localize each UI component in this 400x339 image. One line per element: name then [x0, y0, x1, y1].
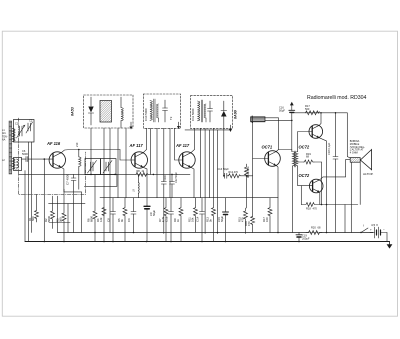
wire emitter AF117b down [191, 167, 194, 197]
transistor OC72 lower [309, 179, 323, 193]
capacitor C18 [335, 113, 337, 157]
ferrite antenna rod [9, 121, 12, 174]
wire secondary bottom to OC72b base [298, 166, 313, 186]
driver transformer T3 [293, 151, 298, 167]
svg-text:210: 210 [75, 142, 79, 147]
svg-text:C9: C9 [127, 218, 131, 222]
svg-text:−: − [383, 228, 385, 232]
bias line with resistor R18 [301, 203, 358, 207]
wire base AF117a [120, 150, 135, 161]
svg-text:R12 470: R12 470 [229, 171, 239, 174]
svg-text:R18: R18 [306, 207, 311, 211]
supply rail R17 line [292, 112, 348, 114]
svg-text:R20: R20 [311, 226, 316, 230]
IF can 2 dashed box [143, 94, 180, 128]
resistor R20 [306, 231, 322, 235]
svg-text:AF 117: AF 117 [129, 143, 144, 148]
wire driver primary bottom down [292, 166, 294, 233]
loudspeaker cone [360, 150, 371, 170]
volume potentiometer R13 [251, 116, 265, 123]
svg-text:ALTOP.: ALTOP. [363, 172, 373, 176]
thermistor box R6 [100, 101, 112, 123]
transistor OC72 upper [309, 125, 323, 139]
capacitor IF2 [164, 100, 166, 108]
transistor AF117 first [131, 152, 147, 168]
wire speaker return [359, 162, 361, 204]
svg-text:68: 68 [318, 226, 321, 230]
AGC line [18, 173, 190, 175]
coil L3 [17, 159, 19, 168]
junction dots on bus [103, 241, 105, 243]
svg-text:R8: R8 [137, 170, 141, 173]
wire collector AF117a up to can2 [143, 128, 146, 152]
wire [208, 130, 210, 198]
resistor R5 vertical [123, 198, 127, 241]
svg-text:C11 5000: C11 5000 [191, 108, 195, 121]
electrolytic C9b [144, 206, 156, 242]
svg-text:T2: T2 [169, 116, 173, 120]
wire [213, 128, 215, 197]
bottom bus lower [25, 241, 390, 243]
wire collector OC72b to output transformer [320, 160, 350, 180]
wire base AF117b [175, 128, 183, 160]
IF can 3 dashed box [190, 96, 232, 129]
wire emitter OC71 down [276, 166, 278, 233]
svg-text:5000: 5000 [164, 174, 167, 180]
svg-text:C12 50µF: C12 50µF [175, 171, 178, 183]
oscillator coil L4 [79, 157, 81, 167]
capacitor C16 electrolytic [289, 102, 295, 152]
wire [117, 128, 119, 198]
svg-text:C8: C8 [107, 218, 111, 222]
resistor R8 in AGC line [136, 172, 148, 176]
svg-text:C18 0,1µF: C18 0,1µF [327, 142, 331, 155]
mid horizontal line left [49, 203, 85, 205]
wire pot to collector node [265, 118, 279, 150]
choke L9 vertical [138, 182, 141, 193]
wire base bias [300, 186, 302, 205]
wire [200, 128, 202, 197]
coil IF3 primary [198, 101, 200, 121]
wire IF can1 secondary down [103, 128, 105, 242]
wire collector OC72a to top rail [319, 113, 321, 125]
resistor R17 [306, 111, 320, 115]
svg-text:+: + [370, 228, 372, 232]
svg-text:4,5 V: 4,5 V [371, 223, 378, 227]
svg-text:L3: L3 [15, 167, 18, 171]
wire collector OC71 to driver transformer [276, 150, 292, 152]
wire [31, 142, 33, 233]
output transformer feed wire [347, 113, 350, 158]
transistor AF117 second [179, 152, 195, 168]
svg-text:6800: 6800 [90, 216, 94, 222]
capacitor IF3 [209, 101, 211, 109]
svg-text:L9: L9 [133, 189, 136, 192]
svg-text:C12: C12 [165, 216, 169, 222]
svg-text:AF 116: AF 116 [46, 141, 61, 146]
resistor R1 vertical [35, 195, 39, 223]
battery 4.5V [370, 227, 387, 242]
junction node [44, 158, 46, 160]
wire pot left down to OC71 base [253, 122, 269, 159]
transistor AF116 [49, 152, 65, 168]
resistor R18 vertical [268, 198, 272, 233]
wire base bias down [252, 159, 254, 217]
svg-text:50µF: 50µF [279, 109, 285, 113]
svg-text:C7 4000: C7 4000 [66, 174, 70, 185]
wire down from base node [43, 159, 45, 241]
svg-text:100: 100 [265, 217, 269, 222]
IF can 1 dashed box [84, 95, 133, 128]
svg-text:OC71: OC71 [262, 145, 273, 150]
wire [125, 128, 127, 198]
transistor OC71 [265, 151, 281, 167]
capacitor C9 [133, 198, 135, 212]
capacitor C12b from AGC line [171, 174, 173, 181]
wire can3 bottom [185, 129, 231, 131]
wire diode to AGC line [90, 128, 92, 174]
resistor R4 vertical [102, 208, 106, 216]
svg-text:4k: 4k [142, 170, 145, 173]
svg-text:5000: 5000 [22, 152, 28, 156]
wire collector AF117b up to can3 [191, 128, 195, 152]
capacitor C14 [201, 198, 203, 212]
svg-text:0A90: 0A90 [234, 109, 238, 119]
svg-text:500: 500 [305, 107, 310, 111]
diode OA53 [88, 97, 93, 125]
capacitor C6 [22, 158, 27, 160]
wire [28, 142, 30, 242]
resistor R12 horizontal [229, 174, 253, 178]
trimmer box A [85, 159, 101, 175]
resistor R15 vertical [244, 208, 248, 223]
wire base AF116 [28, 158, 53, 160]
wire [150, 128, 152, 174]
resistor R7 vertical [164, 198, 168, 241]
wire [24, 171, 26, 242]
svg-text:470: 470 [247, 221, 251, 226]
svg-text:12k: 12k [99, 217, 103, 222]
bottom rail upper [58, 232, 374, 234]
wire [204, 128, 206, 233]
svg-text:C10 5000: C10 5000 [144, 108, 148, 121]
coil IF2 primary [150, 101, 152, 121]
svg-text:L2: L2 [2, 159, 5, 162]
capacitor C7 [73, 174, 75, 178]
svg-text:50µF: 50µF [220, 215, 224, 222]
resistor R9 vertical [179, 198, 183, 241]
mid horizontal line [100, 197, 278, 199]
ground arrow can2 [178, 122, 180, 127]
svg-text:OC72: OC72 [299, 145, 310, 150]
wire [156, 128, 158, 197]
svg-text:10k: 10k [191, 217, 195, 222]
wire [138, 174, 140, 182]
wire [116, 174, 118, 186]
ground arrow can3 [230, 125, 232, 130]
capacitor C12 [170, 198, 172, 212]
wire emitter AF116 down [61, 167, 81, 232]
wire [246, 180, 248, 208]
wire emitter AF117a down [143, 167, 147, 205]
wire coil to ground [78, 150, 80, 157]
svg-text:560: 560 [59, 217, 63, 222]
wire bias chain down [321, 162, 323, 205]
module dash-dot box [18, 118, 85, 195]
resistor R3 vertical [62, 189, 66, 241]
antenna coil L2 [13, 159, 16, 169]
resistor R19 [303, 160, 314, 164]
output transformer voice coil box [350, 158, 360, 163]
svg-text:200µF: 200µF [302, 237, 310, 241]
svg-text:NA: NA [2, 139, 6, 142]
resistor R14 vertical [245, 164, 249, 180]
resistor R16 vertical [251, 216, 255, 232]
svg-text:Radiomarelli mod. RD304: Radiomarelli mod. RD304 [307, 95, 367, 101]
ground arrow can1 [130, 122, 132, 128]
capacitor C8 [112, 198, 114, 212]
antenna coil L1 [13, 129, 16, 142]
svg-text:50µF: 50µF [152, 209, 156, 216]
svg-text:560: 560 [31, 216, 35, 221]
wire secondary top to OC72a base [298, 132, 313, 152]
svg-text:OC72: OC72 [299, 173, 310, 178]
diode OA90 [221, 101, 227, 176]
resistor R11 vertical [194, 198, 198, 232]
svg-text:0A53: 0A53 [71, 106, 75, 116]
wire collector AF116 [61, 150, 120, 153]
resistor R13 vertical [212, 198, 216, 241]
electrolytic C15 [217, 198, 229, 242]
variable capacitor C2 [27, 123, 29, 131]
wire [67, 204, 69, 233]
wire [169, 128, 171, 197]
coil inside can 1 [121, 108, 123, 121]
short link [49, 222, 70, 224]
wire emitter OC72b down [319, 192, 321, 204]
resistor R6 vertical [93, 174, 97, 241]
svg-text:C13: C13 [218, 168, 223, 171]
tuner box [14, 120, 35, 143]
variable capacitor C1 [19, 126, 21, 136]
svg-text:470: 470 [313, 207, 318, 211]
switch S1 [360, 232, 361, 233]
svg-text:AF 117: AF 117 [175, 143, 190, 148]
capacitor C13 in line [223, 175, 226, 177]
capacitor C19 electrolytic [296, 233, 302, 242]
resistor R2 vertical [51, 196, 55, 229]
svg-text:C2: C2 [29, 119, 33, 123]
svg-text:C14: C14 [196, 216, 200, 222]
wire [109, 128, 111, 233]
bias link line [84, 185, 117, 187]
svg-text:4 OHM: 4 OHM [350, 151, 358, 154]
wire to rail [344, 205, 346, 233]
wire [217, 130, 219, 234]
coil box L3 [14, 158, 22, 171]
ground arrow [389, 242, 391, 245]
wire emitter OC72a [319, 138, 326, 233]
wire with capacitor C9c [163, 128, 165, 181]
svg-text:5600: 5600 [47, 216, 51, 222]
wire pot to C16 node [265, 119, 292, 121]
wire [57, 196, 59, 233]
trimmer box B [101, 159, 117, 175]
wire transformer lead to rail [350, 162, 352, 232]
svg-text:I: I [363, 224, 364, 228]
